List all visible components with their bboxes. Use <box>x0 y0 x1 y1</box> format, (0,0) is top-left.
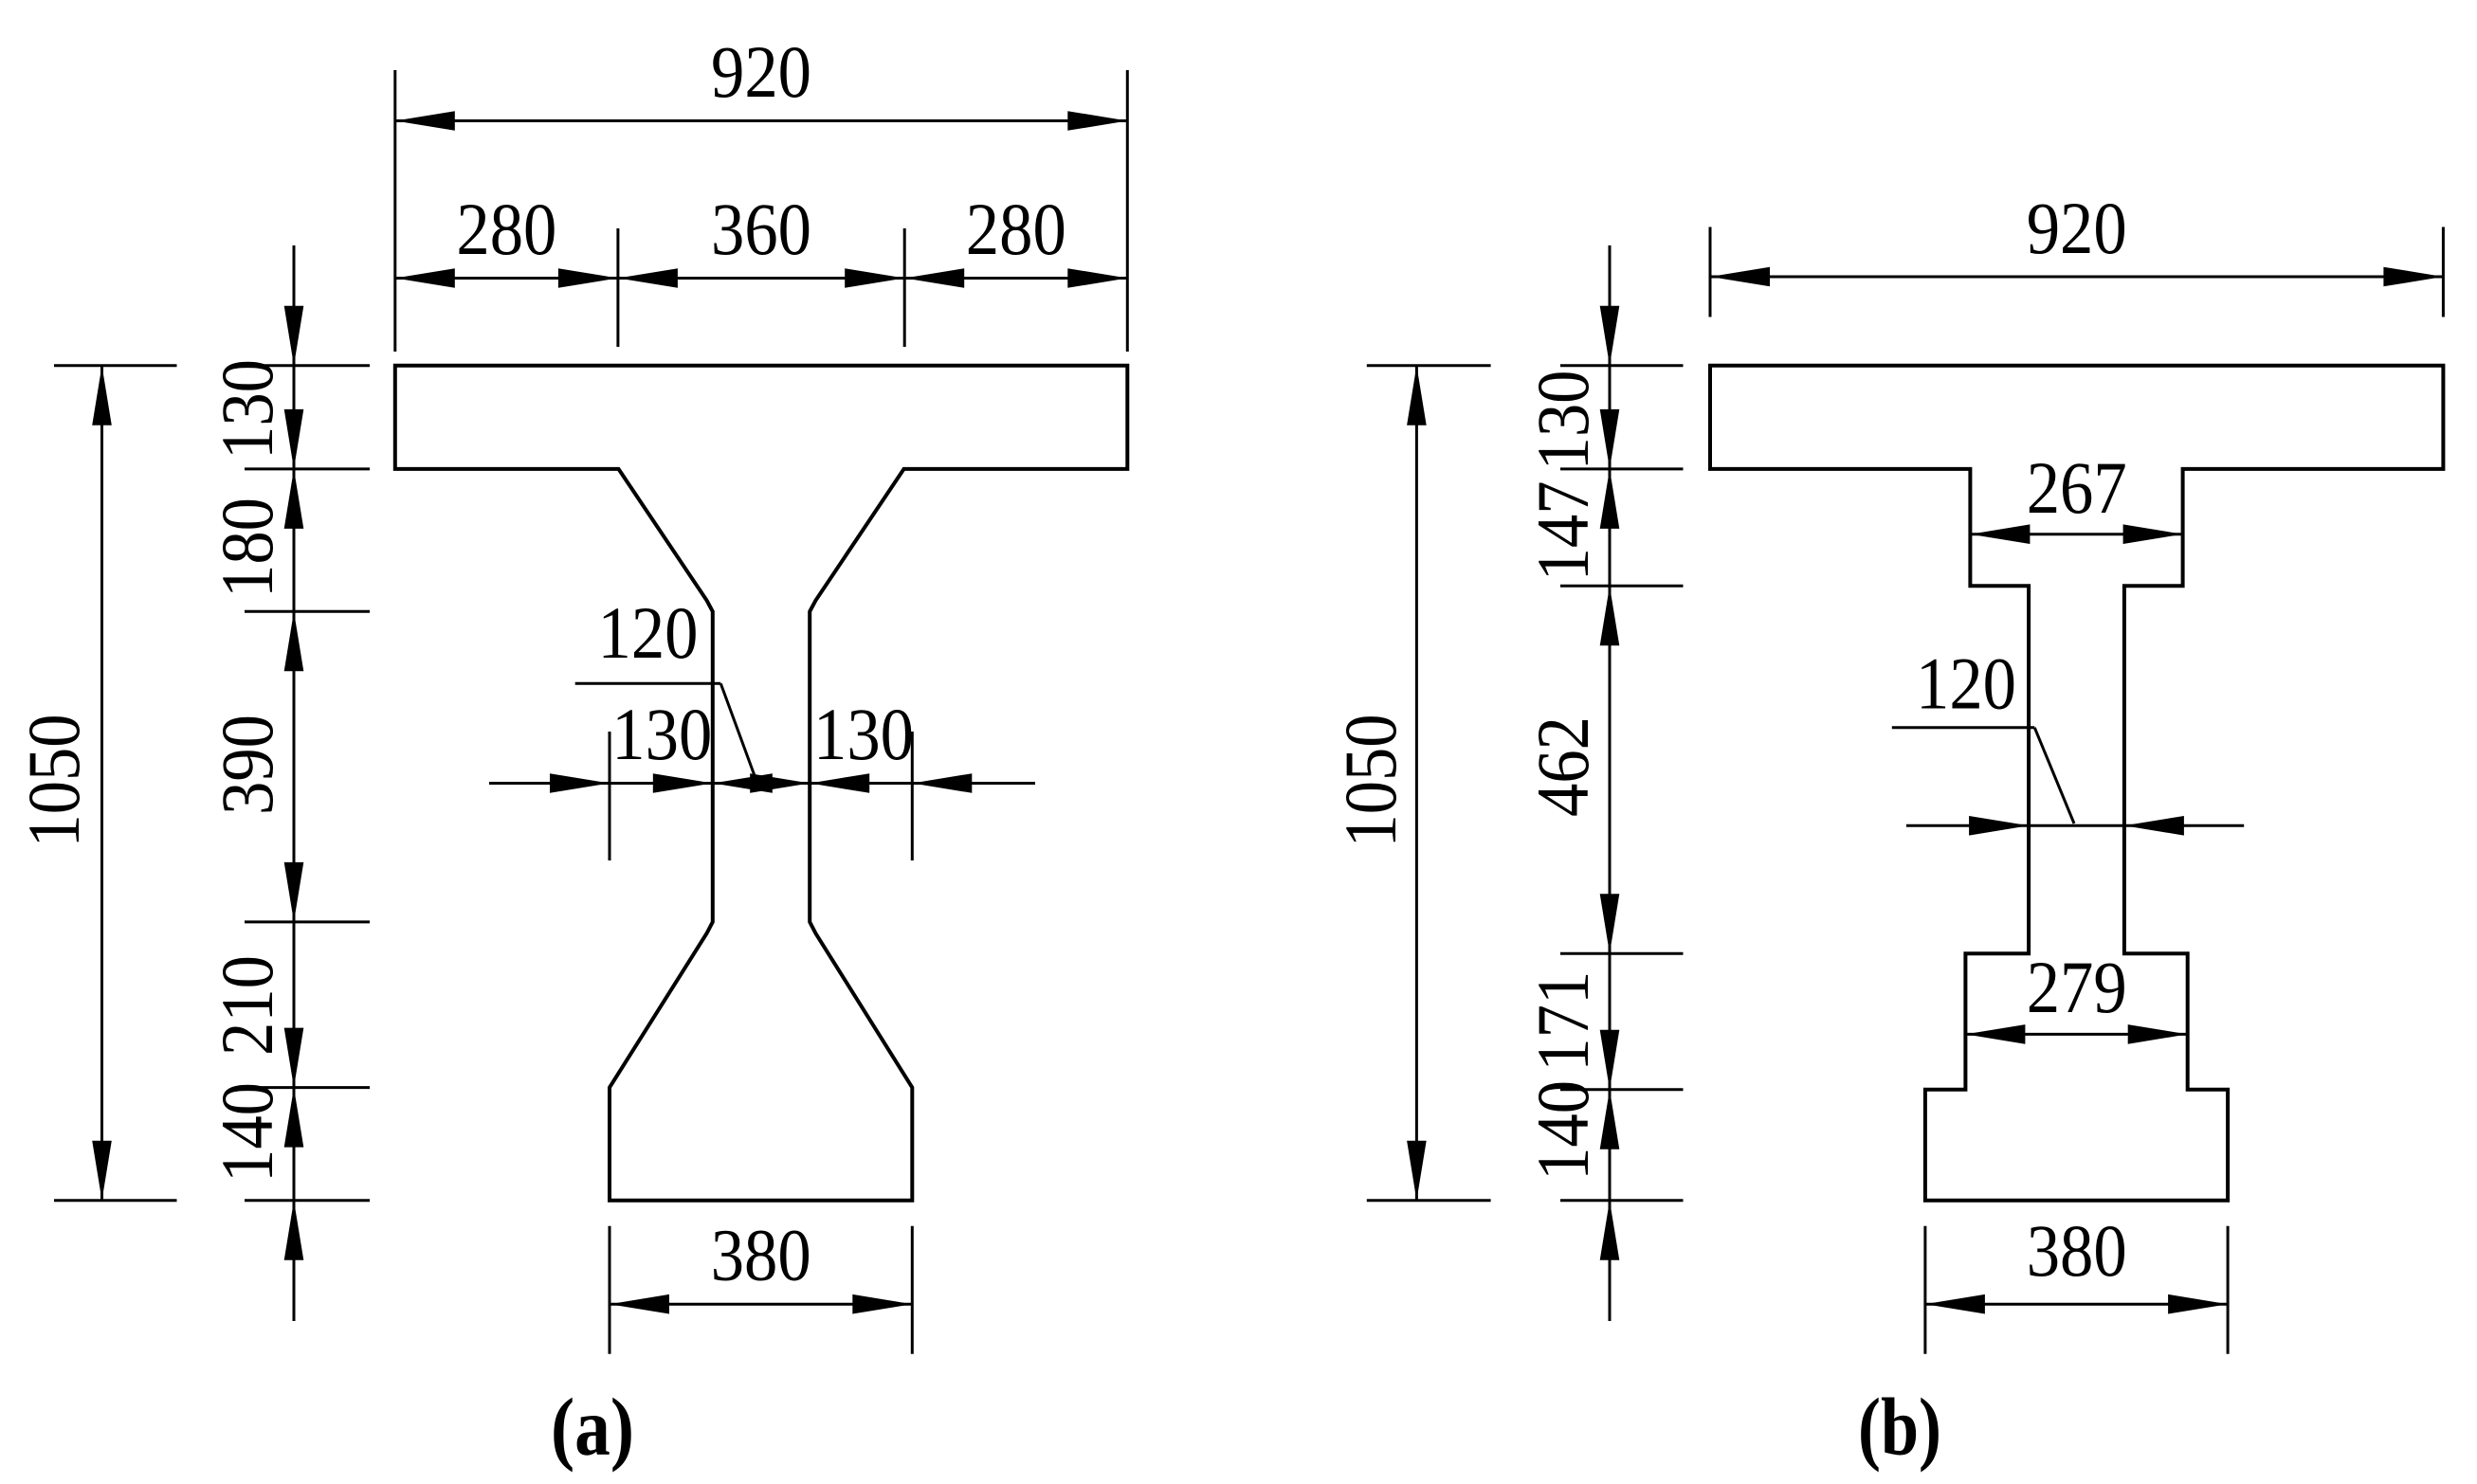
dim 120 web (a) left arrow <box>713 773 773 793</box>
height chain (a) dimension line <box>293 245 296 1321</box>
caption (b) <box>1858 1381 1941 1473</box>
dim 267 (b) label <box>2027 446 2127 529</box>
svg-text:130: 130 <box>813 693 914 775</box>
dim 147 (b) label <box>1521 480 1604 581</box>
svg-text:267: 267 <box>2027 446 2127 529</box>
height chain (b) arrow above flange top <box>1600 306 1620 366</box>
dim 380 (a) left arrow <box>610 1294 669 1314</box>
girder cross-section (b) outline <box>1710 366 2443 1201</box>
dim 130/130 (a) dimension line <box>489 782 1035 785</box>
dim 1050 (a) bottom tick <box>54 1199 177 1202</box>
height chain (b) tick at beam bottom <box>1560 1199 1684 1202</box>
svg-text:920: 920 <box>2027 187 2127 269</box>
dim 380 (b) dimension line <box>1925 1303 2228 1306</box>
dim 130 right (a) outer arrow <box>912 773 972 793</box>
dim 920 (b) left arrow <box>1710 267 1770 287</box>
dim 1050 (a) bottom arrow <box>92 1141 112 1201</box>
dim 380 (a) label <box>711 1214 811 1296</box>
svg-text:210: 210 <box>206 955 288 1056</box>
dim 380 (b) left extension line <box>1923 1226 1926 1354</box>
girder cross-section (a) outline <box>395 366 1128 1201</box>
height chain (b) tick at step3 bottom <box>1560 1088 1684 1091</box>
svg-text:120: 120 <box>598 591 699 674</box>
dim 1050 (a) dimension line <box>100 366 103 1201</box>
dim 279 (b) dimension line <box>1965 1033 2187 1036</box>
height chain (a) tick at bottom flange top <box>245 1086 370 1089</box>
height chain (a) arrow pair at flange bottom <box>284 409 304 529</box>
svg-text:130: 130 <box>206 359 288 460</box>
height chain (b) arrow pair at step3 bottom <box>1600 1030 1620 1149</box>
dim 120 web (b) leader underline <box>1892 726 2035 729</box>
dim 130 flange (b) label <box>1521 371 1604 471</box>
svg-text:279: 279 <box>2027 946 2127 1028</box>
dim 130 flange (a) label <box>206 359 288 460</box>
dim 130/130 (a) right extension line <box>911 732 914 860</box>
dim 462 (b) label <box>1521 716 1604 817</box>
dim 280 right (a) right arrow <box>1067 268 1127 288</box>
dim 140 (a) label <box>206 1082 288 1183</box>
dim 360 (a) right arrow <box>845 268 904 288</box>
dim 390 (a) label <box>206 715 288 815</box>
height chain (a) arrow below beam bottom <box>284 1201 304 1260</box>
dim 360 (a) label <box>711 188 811 270</box>
svg-text:(b): (b) <box>1858 1381 1941 1473</box>
svg-text:380: 380 <box>2027 1209 2127 1292</box>
dim 380 (a) dimension line <box>610 1303 912 1306</box>
height chain (a) arrow above web bottom <box>284 862 304 922</box>
dim 920 (a) left arrow <box>395 111 455 131</box>
dim 120 web (a) leader <box>720 683 756 781</box>
svg-text:147: 147 <box>1521 480 1604 581</box>
dim 1050 (a) top tick <box>54 364 177 367</box>
dim 920 (a) label <box>711 30 811 113</box>
dim 120 web (a) label <box>598 591 699 674</box>
dim 120 web (b) leader <box>2034 728 2074 823</box>
dim 280 left (a) left arrow <box>395 268 455 288</box>
dim 120 web (a) leader underline <box>575 682 721 685</box>
dim 280 left (a) label <box>456 188 556 270</box>
svg-text:180: 180 <box>206 498 288 598</box>
dim 1050 (a) label <box>12 715 95 848</box>
dim 267 (b) dimension line <box>1970 533 2182 535</box>
dim 120 web (a) right arrow <box>750 773 810 793</box>
dim 920 (a) right arrow <box>1067 111 1127 131</box>
dim 140 (b) label <box>1521 1080 1604 1181</box>
svg-text:280: 280 <box>966 188 1066 270</box>
height chain (a) tick at flange bottom <box>245 467 370 470</box>
dim chain (a) dimension line <box>395 277 1128 280</box>
dim 130 right (a) label <box>813 693 914 775</box>
dim 180 (a) label <box>206 498 288 598</box>
dim 380 (a) left extension line <box>609 1226 611 1354</box>
dim 1050 (a) top arrow <box>92 366 112 425</box>
dim 280 right (a) left arrow <box>904 268 964 288</box>
svg-text:360: 360 <box>711 188 811 270</box>
svg-text:140: 140 <box>206 1082 288 1183</box>
height chain (a) tick at web bottom <box>245 920 370 923</box>
dim 280 right (a) label <box>966 188 1066 270</box>
svg-text:462: 462 <box>1521 716 1604 817</box>
height chain (a) tick at web top <box>245 610 370 613</box>
svg-text:130: 130 <box>1521 371 1604 471</box>
dim 267 (b) right arrow <box>2123 524 2183 544</box>
dim 380 (b) right arrow <box>2168 1294 2228 1314</box>
caption (a) <box>551 1381 634 1473</box>
dim 130 left (a) label <box>611 693 712 775</box>
svg-text:130: 130 <box>611 693 712 775</box>
dim 920 (b) dimension line <box>1710 276 2443 279</box>
dim 267 (b) left arrow <box>1970 524 2030 544</box>
dim 279 (b) right arrow <box>2128 1024 2188 1044</box>
dim 380 (b) label <box>2027 1209 2127 1292</box>
svg-text:(a): (a) <box>551 1381 634 1473</box>
height chain (b) arrow below step1 bottom <box>1600 586 1620 645</box>
height chain (b) tick at flange bottom <box>1560 467 1684 470</box>
dim 130 left (a) outer arrow <box>550 773 610 793</box>
height chain (a) arrow pair at bottom flange top <box>284 1028 304 1148</box>
dim 920 (a) right extension line <box>1126 70 1129 352</box>
dim 120 web (b) right arrow <box>2124 816 2184 836</box>
dim 920 (b) left extension line <box>1709 227 1712 317</box>
dim 1050 (b) bottom arrow <box>1407 1141 1427 1201</box>
dim 380 (b) left arrow <box>1925 1294 1985 1314</box>
dim 920 (a) left extension line <box>393 70 396 352</box>
svg-text:380: 380 <box>711 1214 811 1296</box>
dim 1050 (b) top tick <box>1367 364 1491 367</box>
dim chain 280/360/280 (a) extension line at 280 <box>616 228 619 347</box>
svg-text:920: 920 <box>711 30 811 113</box>
dim 171 (b) label <box>1521 971 1604 1072</box>
dim 920 (a) dimension line <box>395 119 1128 122</box>
height chain (b) dimension line <box>1609 245 1612 1321</box>
height chain (b) arrow above web bottom <box>1600 894 1620 953</box>
height chain (b) arrow below beam bottom <box>1600 1201 1620 1260</box>
dim 210 (a) label <box>206 955 288 1056</box>
dim 1050 (b) bottom tick <box>1367 1199 1491 1202</box>
dim 130 left (a) inner arrow <box>653 773 713 793</box>
height chain (a) tick at beam bottom <box>245 1199 370 1202</box>
dim 120 web (b) label <box>1916 642 2016 725</box>
dim 120 web (b) left arrow <box>1969 816 2029 836</box>
dim 120 web (b) dimension line <box>1906 824 2244 827</box>
svg-text:1050: 1050 <box>1329 715 1412 848</box>
svg-text:140: 140 <box>1521 1080 1604 1181</box>
svg-text:280: 280 <box>456 188 556 270</box>
height chain (a) arrow above flange top <box>284 306 304 366</box>
svg-text:171: 171 <box>1521 971 1604 1072</box>
svg-text:120: 120 <box>1916 642 2016 725</box>
dim 1050 (b) dimension line <box>1415 366 1418 1201</box>
height chain (b) tick at web bottom <box>1560 952 1684 955</box>
dim 130/130 (a) left extension line <box>609 732 611 860</box>
height chain (b) tick at flange top <box>1560 364 1684 367</box>
dim 360 (a) left arrow <box>618 268 678 288</box>
height chain (b) tick at step1 bottom <box>1560 585 1684 588</box>
dim 380 (a) right arrow <box>852 1294 912 1314</box>
dim 279 (b) left arrow <box>1965 1024 2025 1044</box>
dim 920 (b) right extension line <box>2442 227 2445 317</box>
dim 920 (b) right arrow <box>2383 267 2443 287</box>
dim 380 (a) right extension line <box>911 1226 914 1354</box>
dim 380 (b) right extension line <box>2227 1226 2230 1354</box>
dim 280 left (a) right arrow <box>558 268 618 288</box>
height chain (b) arrow pair at flange bottom <box>1600 409 1620 529</box>
dim 1050 (b) label <box>1329 715 1412 848</box>
dim 279 (b) label <box>2027 946 2127 1028</box>
dim 920 (b) label <box>2027 187 2127 269</box>
dim 1050 (b) top arrow <box>1407 366 1427 425</box>
dim chain 280/360/280 (a) extension line at 640 <box>903 228 906 347</box>
height chain (a) tick at flange top <box>245 364 370 367</box>
height chain (a) arrow below web top <box>284 611 304 671</box>
svg-text:1050: 1050 <box>12 715 95 848</box>
dim 130 right (a) inner arrow <box>810 773 869 793</box>
svg-text:390: 390 <box>206 715 288 815</box>
